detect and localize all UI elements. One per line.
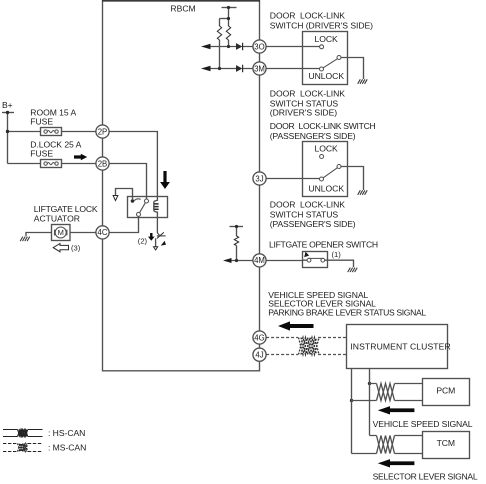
- svg-text:PCM: PCM: [436, 385, 455, 395]
- svg-text:DOOR LOCK-LINK: DOOR LOCK-LINK: [270, 199, 345, 209]
- svg-text:4C: 4C: [98, 228, 108, 237]
- svg-text:LIFTGATE OPENER SWITCH: LIFTGATE OPENER SWITCH: [269, 240, 378, 250]
- svg-text:M: M: [58, 228, 64, 237]
- svg-text:SELECTOR LEVER SIGNAL: SELECTOR LEVER SIGNAL: [373, 472, 478, 482]
- svg-text:LOCK: LOCK: [315, 144, 339, 154]
- svg-text:: MS-CAN: : MS-CAN: [48, 443, 86, 453]
- svg-text:DOOR LOCK-LINK SWITCH: DOOR LOCK-LINK SWITCH: [270, 121, 376, 131]
- svg-text:UNLOCK: UNLOCK: [309, 71, 345, 81]
- svg-text:VEHICLE SPEED SIGNAL: VEHICLE SPEED SIGNAL: [373, 419, 473, 429]
- svg-text:DOOR LOCK-LINK: DOOR LOCK-LINK: [270, 11, 345, 21]
- svg-text:3O: 3O: [254, 42, 264, 51]
- svg-text:(1): (1): [332, 250, 342, 259]
- svg-text:PARKING BRAKE LEVER STATUS SIG: PARKING BRAKE LEVER STATUS SIGNAL: [268, 308, 426, 318]
- svg-text:4M: 4M: [254, 256, 265, 265]
- svg-text:(PASSENGER'S SIDE): (PASSENGER'S SIDE): [270, 219, 356, 229]
- svg-text:(DRIVER'S SIDE): (DRIVER'S SIDE): [270, 108, 337, 118]
- svg-text:3M: 3M: [254, 64, 265, 73]
- svg-text:4G: 4G: [254, 333, 264, 342]
- svg-text:DOOR LOCK-LINK: DOOR LOCK-LINK: [270, 89, 345, 99]
- svg-text:UNLOCK: UNLOCK: [309, 184, 345, 194]
- svg-text:2P: 2P: [98, 127, 108, 136]
- svg-text:3J: 3J: [255, 174, 263, 183]
- svg-text:RBCM: RBCM: [170, 3, 195, 13]
- svg-text:FUSE: FUSE: [30, 117, 53, 127]
- svg-text:TCM: TCM: [437, 438, 455, 448]
- svg-text:2B: 2B: [98, 159, 108, 168]
- svg-text:ACTUATOR: ACTUATOR: [34, 214, 80, 224]
- svg-text:SWITCH (DRIVER'S SIDE): SWITCH (DRIVER'S SIDE): [270, 21, 373, 31]
- svg-text:B+: B+: [2, 100, 13, 110]
- svg-text:4J: 4J: [255, 351, 263, 360]
- svg-text:FUSE: FUSE: [30, 148, 53, 158]
- svg-text:(2): (2): [138, 237, 148, 246]
- svg-text:SWITCH STATUS: SWITCH STATUS: [270, 209, 339, 219]
- svg-text:INSTRUMENT CLUSTER: INSTRUMENT CLUSTER: [350, 341, 450, 351]
- svg-text:(PASSENGER'S SIDE): (PASSENGER'S SIDE): [270, 131, 356, 141]
- svg-text:LIFTGATE LOCK: LIFTGATE LOCK: [34, 204, 98, 214]
- svg-text:: HS-CAN: : HS-CAN: [48, 428, 85, 438]
- svg-text:(3): (3): [71, 243, 81, 252]
- svg-text:LOCK: LOCK: [315, 34, 339, 44]
